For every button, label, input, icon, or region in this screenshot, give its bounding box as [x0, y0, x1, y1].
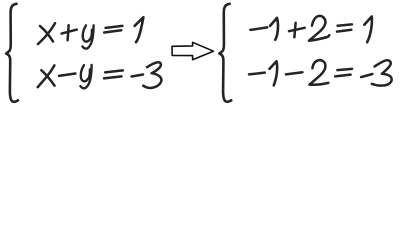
- arrow (hollow right): [172, 42, 213, 59]
- row2 right: 3: [372, 60, 392, 85]
- right system brace {: [219, 4, 231, 102]
- row2 right: 1: [270, 61, 278, 85]
- row1 right: 2: [309, 16, 329, 41]
- row1 right: -: [250, 27, 267, 30]
- row2 left: - (short): [132, 75, 143, 77]
- row1 left: +: [62, 30, 77, 34]
- row1 right: +: [289, 28, 305, 31]
- row2 right: - (short): [361, 74, 372, 77]
- row1 right: 1: [364, 17, 372, 43]
- row2 left: x: [41, 70, 54, 85]
- row2 left: 3: [143, 62, 161, 88]
- row2 right: -: [249, 73, 265, 75]
- row2 left: =: [105, 70, 123, 72]
- row2 left: y: [81, 65, 90, 81]
- row2 right: 2: [309, 60, 328, 85]
- row2 right: =: [337, 69, 352, 70]
- row1 right: =: [338, 24, 352, 25]
- row1 left: y: [83, 25, 92, 41]
- left system brace {: [6, 4, 18, 102]
- row1 left: x: [40, 26, 53, 42]
- row2 left: -: [59, 74, 75, 76]
- row1 left: 1: [135, 17, 144, 42]
- row1 left: =: [106, 26, 123, 28]
- row2 right: -: [286, 72, 302, 74]
- row1 right: 1: [270, 18, 278, 40]
